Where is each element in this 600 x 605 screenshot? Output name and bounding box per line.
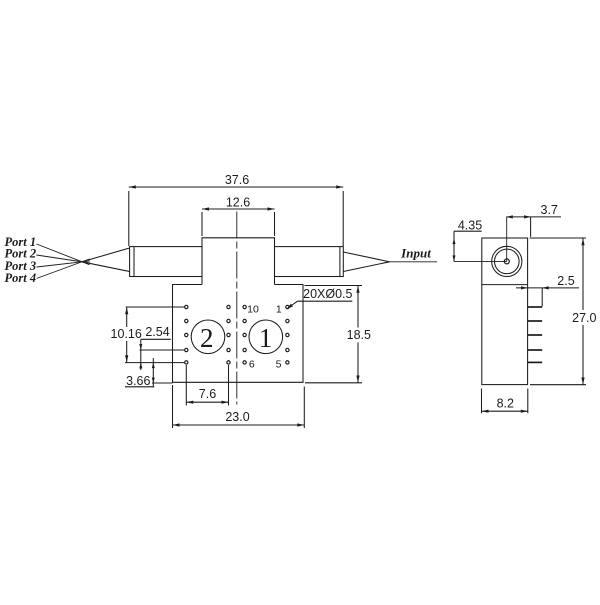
right collimator cap line bbox=[339, 247, 341, 277]
pin hole col3 row5 bbox=[243, 361, 246, 364]
pin hole col3 row1 bbox=[243, 305, 246, 308]
circle center horizontal line bbox=[454, 260, 507, 262]
svg-text:37.6: 37.6 bbox=[225, 173, 249, 187]
dim 23.0 line bbox=[173, 424, 305, 426]
dim 37.6 extension left bbox=[128, 191, 130, 246]
side view body bbox=[482, 238, 528, 385]
dim 18.5 line bbox=[357, 286, 359, 328]
pin hole col2 row5 bbox=[227, 361, 230, 364]
circle center vertical line bbox=[506, 217, 508, 262]
switch position circle 1 bbox=[249, 320, 283, 354]
svg-text:10.16: 10.16 bbox=[111, 327, 142, 341]
pin hole col4 row5 bbox=[286, 361, 289, 364]
pin hole col4 row3 bbox=[286, 333, 289, 336]
dim 7.6 extension left bbox=[185, 365, 187, 406]
right fiber cone bbox=[343, 252, 389, 272]
dim 7.6 extension right bbox=[228, 365, 230, 406]
svg-text:6: 6 bbox=[249, 358, 255, 370]
dim 10.16 line bbox=[126, 307, 128, 327]
dim 2.54 shelf bbox=[141, 338, 171, 340]
dim 8.2 extension right bbox=[527, 389, 529, 414]
dim 18.5 extension top bbox=[305, 285, 363, 287]
pin hole col3 row4 bbox=[243, 348, 246, 351]
svg-text:27.0: 27.0 bbox=[572, 311, 596, 325]
svg-text:3.7: 3.7 bbox=[541, 203, 558, 217]
dim 23.0 extension right bbox=[303, 387, 305, 429]
svg-text:3.66: 3.66 bbox=[126, 374, 150, 388]
svg-text:Port 4: Port 4 bbox=[5, 271, 37, 285]
svg-text:Input: Input bbox=[400, 246, 431, 261]
pin hole col2 row4 bbox=[227, 348, 230, 351]
main body plate bbox=[173, 285, 304, 383]
dim 3.66 extension plate bottom bbox=[152, 382, 173, 384]
switch position circle 2 bbox=[191, 320, 225, 354]
dim 12.6 extension right bbox=[274, 212, 276, 236]
top protrusion of body bbox=[202, 238, 275, 285]
pin hole col4 row4 bbox=[286, 348, 289, 351]
pin hole col2 row3 bbox=[227, 333, 230, 336]
input fiber lead bbox=[390, 261, 438, 263]
dim 4.35 line bbox=[453, 231, 455, 261]
input collimator bore outer circle bbox=[492, 246, 522, 276]
pin hole col4 row1 bbox=[286, 305, 289, 308]
vertical centerline bbox=[236, 212, 238, 405]
dim 2.5 line bbox=[516, 287, 579, 289]
pin hole col1 row4 bbox=[185, 348, 188, 351]
dim 3.7 extension right bbox=[530, 217, 532, 237]
dim 23.0 extension left bbox=[172, 385, 174, 428]
dim 8.2 extension left bbox=[481, 389, 483, 414]
dim 8.2 line bbox=[482, 410, 528, 412]
svg-text:10: 10 bbox=[247, 304, 259, 316]
svg-text:12.6: 12.6 bbox=[226, 195, 250, 209]
side view pins bbox=[528, 306, 543, 308]
svg-text:2.5: 2.5 bbox=[557, 274, 574, 288]
hole callout shelf bbox=[298, 300, 353, 302]
svg-text:7.6: 7.6 bbox=[199, 387, 216, 401]
svg-text:2: 2 bbox=[200, 323, 214, 353]
fiber lead Port 4 bbox=[37, 259, 90, 279]
fiber lead Port 1 bbox=[37, 244, 90, 265]
svg-text:1: 1 bbox=[276, 304, 282, 316]
dim 12.6 extension left bbox=[201, 212, 203, 236]
pin hole col1 row1 bbox=[185, 305, 188, 308]
svg-text:8.2: 8.2 bbox=[497, 397, 514, 411]
pin hole col3 row2 bbox=[243, 319, 246, 322]
left collimator cylinder bbox=[130, 247, 202, 277]
dim 2.5 extension to pin bbox=[541, 288, 543, 307]
dim 10.16 extension top bbox=[126, 306, 185, 308]
pin hole col4 row2 bbox=[286, 319, 289, 322]
dim 3.66 shelf bbox=[125, 386, 154, 388]
pin hole col3 row3 bbox=[243, 333, 246, 336]
svg-text:1: 1 bbox=[259, 323, 273, 353]
pin hole col2 row1 bbox=[227, 305, 230, 308]
pin hole col1 row3 bbox=[185, 333, 188, 336]
left collimator cap line bbox=[133, 247, 135, 277]
svg-text:20XØ0.5: 20XØ0.5 bbox=[303, 287, 352, 301]
dim 3.66 line bbox=[152, 358, 154, 387]
input collimator bore inner circle bbox=[495, 249, 520, 274]
right collimator cylinder bbox=[275, 247, 344, 277]
dim 27.0 line bbox=[582, 238, 584, 310]
dim 18.5 extension bottom bbox=[305, 382, 362, 384]
dim 10.16 extension bottom row5 bbox=[125, 362, 185, 364]
dim 4.35 shelf bbox=[454, 230, 482, 232]
dim 7.6 line bbox=[186, 401, 228, 403]
svg-text:4.35: 4.35 bbox=[458, 218, 482, 232]
pin hole col1 row2 bbox=[185, 319, 188, 322]
pin hole col2 row2 bbox=[227, 319, 230, 322]
dim 12.6 line bbox=[202, 208, 275, 210]
dim 3.7 line bbox=[506, 216, 561, 218]
dim 27.0 extension bottom bbox=[530, 384, 586, 386]
dim 37.6 extension right bbox=[342, 191, 344, 246]
svg-text:18.5: 18.5 bbox=[347, 328, 371, 342]
hole callout leader bbox=[289, 301, 298, 307]
fiber core dot bbox=[504, 259, 509, 264]
dim 27.0 extension top bbox=[530, 237, 587, 239]
dim 2.54 extension row4 bbox=[140, 349, 185, 351]
svg-text:23.0: 23.0 bbox=[225, 410, 249, 424]
svg-text:2.54: 2.54 bbox=[145, 325, 169, 339]
side view divider line bbox=[482, 284, 528, 286]
left fiber cone bbox=[82, 248, 130, 272]
fiber lead Port 3 bbox=[37, 261, 90, 267]
svg-text:5: 5 bbox=[276, 358, 282, 370]
dim 37.6 line bbox=[129, 186, 343, 188]
fiber lead Port 2 bbox=[37, 255, 90, 263]
pin hole col1 row5 bbox=[185, 361, 188, 364]
dim 2.54 line bbox=[140, 339, 142, 370]
